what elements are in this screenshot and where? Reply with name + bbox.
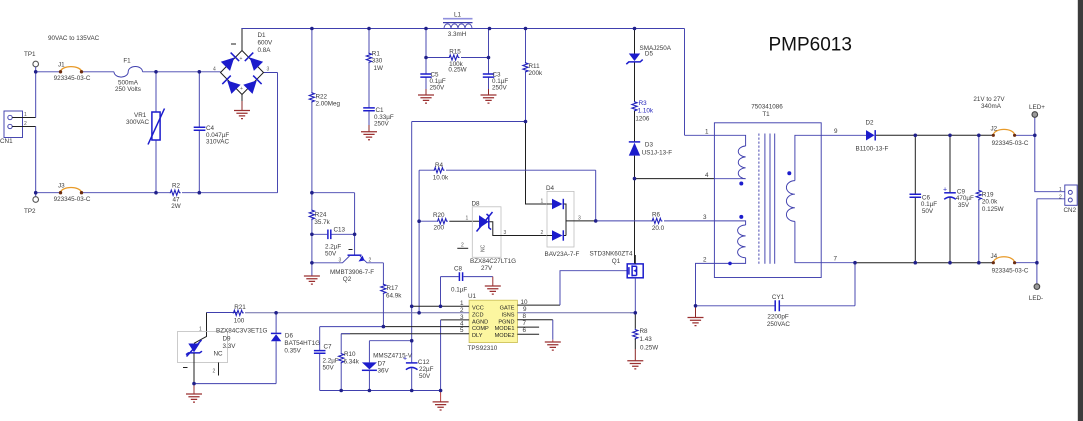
svg-text:3: 3 bbox=[504, 230, 507, 236]
svg-text:NC: NC bbox=[214, 351, 224, 358]
svg-text:TP2: TP2 bbox=[24, 208, 36, 215]
svg-text:250 Volts: 250 Volts bbox=[115, 86, 141, 93]
svg-text:20.0: 20.0 bbox=[652, 225, 665, 232]
svg-text:250V: 250V bbox=[374, 121, 390, 128]
svg-text:300VAC: 300VAC bbox=[126, 119, 149, 126]
svg-text:R20: R20 bbox=[433, 212, 445, 219]
svg-text:VCC: VCC bbox=[472, 305, 484, 311]
svg-text:VR1: VR1 bbox=[134, 112, 147, 119]
svg-text:C7: C7 bbox=[324, 344, 333, 351]
svg-text:2: 2 bbox=[461, 243, 464, 249]
svg-text:B1100-13-F: B1100-13-F bbox=[856, 146, 889, 153]
svg-text:R11: R11 bbox=[529, 63, 541, 70]
svg-text:CN2: CN2 bbox=[1064, 207, 1077, 214]
svg-text:J3: J3 bbox=[58, 182, 65, 189]
svg-text:D4: D4 bbox=[546, 185, 555, 192]
svg-text:35.7k: 35.7k bbox=[314, 219, 330, 226]
svg-text:R1: R1 bbox=[372, 51, 381, 58]
svg-text:2: 2 bbox=[213, 369, 216, 375]
svg-text:250V: 250V bbox=[492, 85, 508, 92]
svg-text:GATE: GATE bbox=[500, 305, 515, 311]
svg-text:ISNS: ISNS bbox=[501, 312, 514, 318]
svg-text:1: 1 bbox=[705, 129, 709, 136]
svg-text:BAT54HT1G: BAT54HT1G bbox=[284, 340, 320, 347]
svg-text:+: + bbox=[240, 86, 243, 92]
svg-text:D1: D1 bbox=[258, 32, 267, 39]
svg-text:2.00Meg: 2.00Meg bbox=[316, 101, 341, 108]
svg-text:310VAC: 310VAC bbox=[206, 139, 229, 146]
svg-text:250VAC: 250VAC bbox=[767, 321, 790, 328]
svg-text:D3: D3 bbox=[645, 142, 654, 149]
svg-text:MODE2: MODE2 bbox=[495, 333, 515, 339]
svg-text:5: 5 bbox=[460, 327, 464, 334]
svg-text:J2: J2 bbox=[991, 126, 998, 133]
svg-text:923345-03-C: 923345-03-C bbox=[992, 268, 1029, 275]
svg-text:330: 330 bbox=[372, 58, 383, 65]
svg-text:J1: J1 bbox=[58, 62, 65, 69]
svg-text:4: 4 bbox=[213, 67, 216, 73]
svg-text:0.25W: 0.25W bbox=[640, 345, 658, 352]
svg-text:0.35V: 0.35V bbox=[284, 348, 301, 355]
svg-text:F1: F1 bbox=[123, 58, 131, 65]
svg-text:50V: 50V bbox=[325, 251, 337, 258]
svg-text:BZX84C3V3ET1G: BZX84C3V3ET1G bbox=[216, 328, 268, 335]
svg-text:LED-: LED- bbox=[1029, 295, 1043, 302]
svg-text:1W: 1W bbox=[374, 65, 384, 72]
svg-text:Q1: Q1 bbox=[612, 258, 621, 265]
svg-text:+: + bbox=[403, 356, 407, 363]
svg-text:1206: 1206 bbox=[635, 116, 650, 123]
svg-text:6.34k: 6.34k bbox=[344, 359, 360, 366]
svg-text:D8: D8 bbox=[472, 201, 481, 208]
svg-text:LED+: LED+ bbox=[1029, 104, 1045, 111]
svg-text:27V: 27V bbox=[481, 265, 493, 272]
svg-text:D5: D5 bbox=[645, 51, 654, 58]
svg-text:AGND: AGND bbox=[472, 319, 488, 325]
svg-text:R2: R2 bbox=[172, 183, 181, 190]
svg-text:R22: R22 bbox=[316, 94, 328, 101]
svg-text:0.1µF: 0.1µF bbox=[451, 287, 467, 294]
svg-text:100: 100 bbox=[234, 318, 245, 325]
svg-text:2W: 2W bbox=[171, 203, 181, 210]
svg-text:50V: 50V bbox=[922, 208, 934, 215]
svg-text:3: 3 bbox=[578, 216, 581, 222]
svg-text:3: 3 bbox=[267, 67, 270, 73]
svg-text:4: 4 bbox=[705, 172, 709, 179]
svg-text:3.3mH: 3.3mH bbox=[448, 31, 467, 38]
svg-text:R10: R10 bbox=[344, 351, 356, 358]
svg-text:1.10k: 1.10k bbox=[638, 108, 654, 115]
svg-text:ZCD: ZCD bbox=[472, 312, 484, 318]
svg-text:C1: C1 bbox=[376, 107, 385, 114]
svg-text:COMP: COMP bbox=[472, 326, 489, 332]
svg-text:D2: D2 bbox=[866, 120, 875, 127]
svg-text:1: 1 bbox=[24, 112, 27, 118]
svg-text:250V: 250V bbox=[430, 85, 446, 92]
svg-text:C4: C4 bbox=[206, 125, 215, 132]
svg-text:TP1: TP1 bbox=[24, 51, 36, 58]
svg-text:2200pF: 2200pF bbox=[767, 314, 789, 321]
svg-text:923345-03-C: 923345-03-C bbox=[992, 140, 1029, 147]
svg-text:7: 7 bbox=[834, 256, 838, 263]
svg-text:9: 9 bbox=[834, 128, 838, 135]
svg-text:PGND: PGND bbox=[498, 319, 514, 325]
svg-text:2: 2 bbox=[24, 121, 27, 127]
svg-text:0.1µF: 0.1µF bbox=[921, 201, 937, 208]
svg-text:D7: D7 bbox=[378, 361, 387, 368]
svg-text:20.0k: 20.0k bbox=[982, 199, 998, 206]
svg-text:2: 2 bbox=[369, 258, 372, 264]
svg-text:923345-03-C: 923345-03-C bbox=[54, 75, 91, 82]
svg-text:64.9k: 64.9k bbox=[386, 293, 402, 300]
svg-text:R17: R17 bbox=[387, 285, 399, 292]
svg-text:0.125W: 0.125W bbox=[982, 206, 1004, 213]
svg-text:2: 2 bbox=[541, 230, 544, 236]
svg-text:U1: U1 bbox=[468, 293, 477, 300]
svg-text:STD3NK60ZT4: STD3NK60ZT4 bbox=[589, 251, 633, 258]
svg-text:R4: R4 bbox=[435, 162, 444, 169]
svg-text:50V: 50V bbox=[419, 373, 431, 380]
svg-text:C13: C13 bbox=[334, 227, 346, 234]
svg-text:0.8A: 0.8A bbox=[258, 47, 272, 54]
svg-text:10.0k: 10.0k bbox=[433, 175, 449, 182]
svg-text:R6: R6 bbox=[652, 212, 661, 219]
svg-text:2: 2 bbox=[1059, 194, 1062, 200]
svg-text:MODE1: MODE1 bbox=[495, 326, 515, 332]
svg-text:470µF: 470µF bbox=[956, 195, 974, 202]
svg-text:3.3V: 3.3V bbox=[223, 343, 237, 350]
svg-text:923345-03-C: 923345-03-C bbox=[54, 196, 91, 203]
svg-text:C12: C12 bbox=[418, 359, 430, 366]
svg-text:6: 6 bbox=[523, 327, 527, 334]
svg-text:CY1: CY1 bbox=[772, 294, 785, 301]
svg-text:1: 1 bbox=[541, 199, 544, 205]
svg-text:600V: 600V bbox=[258, 40, 274, 47]
svg-text:50V: 50V bbox=[323, 365, 335, 372]
svg-text:200k: 200k bbox=[529, 70, 544, 77]
svg-text:90VAC to 135VAC: 90VAC to 135VAC bbox=[48, 35, 100, 42]
svg-text:D9: D9 bbox=[223, 336, 232, 343]
svg-text:+: + bbox=[240, 56, 243, 62]
svg-text:BAV23A-7-F: BAV23A-7-F bbox=[545, 251, 580, 258]
svg-text:US1J-13-F: US1J-13-F bbox=[642, 150, 673, 157]
svg-text:2.2µF: 2.2µF bbox=[323, 358, 339, 365]
svg-text:R3: R3 bbox=[639, 100, 648, 107]
svg-text:1: 1 bbox=[466, 216, 469, 222]
svg-text:J4: J4 bbox=[991, 253, 998, 260]
svg-text:R8: R8 bbox=[640, 328, 649, 335]
svg-text:340mA: 340mA bbox=[981, 103, 1002, 110]
svg-text:3: 3 bbox=[703, 214, 707, 221]
svg-text:CN1: CN1 bbox=[0, 138, 13, 145]
svg-text:1: 1 bbox=[1059, 187, 1062, 193]
svg-text:D6: D6 bbox=[285, 333, 294, 340]
svg-text:PMP6013: PMP6013 bbox=[769, 35, 852, 56]
svg-text:1: 1 bbox=[199, 327, 202, 333]
svg-text:R21: R21 bbox=[234, 304, 246, 311]
svg-text:R19: R19 bbox=[982, 192, 994, 199]
svg-text:7: 7 bbox=[523, 320, 527, 327]
svg-text:0.25W: 0.25W bbox=[448, 67, 466, 74]
svg-text:DLY: DLY bbox=[472, 333, 483, 339]
svg-text:NC: NC bbox=[481, 244, 487, 252]
svg-text:+: + bbox=[943, 187, 947, 194]
svg-text:C8: C8 bbox=[454, 266, 463, 273]
svg-text:200: 200 bbox=[434, 225, 445, 232]
svg-text:3: 3 bbox=[339, 258, 342, 264]
svg-text:9: 9 bbox=[523, 306, 527, 313]
svg-text:35V: 35V bbox=[958, 202, 970, 209]
svg-text:BZX84C27LT1G: BZX84C27LT1G bbox=[470, 258, 516, 265]
svg-text:22µF: 22µF bbox=[419, 366, 434, 373]
svg-text:8: 8 bbox=[523, 313, 527, 320]
svg-text:Q2: Q2 bbox=[343, 276, 352, 283]
svg-text:MMBT3906-7-F: MMBT3906-7-F bbox=[330, 269, 374, 276]
svg-text:TPS92310: TPS92310 bbox=[468, 345, 498, 352]
svg-text:L1: L1 bbox=[454, 12, 462, 19]
svg-text:R24: R24 bbox=[315, 212, 327, 219]
svg-text:21V to 27V: 21V to 27V bbox=[973, 96, 1005, 103]
svg-text:2: 2 bbox=[703, 257, 707, 264]
svg-text:T1: T1 bbox=[762, 111, 770, 118]
svg-text:1.43: 1.43 bbox=[640, 336, 653, 343]
svg-text:750341086: 750341086 bbox=[751, 104, 783, 111]
svg-text:R15: R15 bbox=[449, 49, 461, 56]
svg-text:2.2µF: 2.2µF bbox=[325, 244, 341, 251]
svg-text:36V: 36V bbox=[378, 368, 390, 375]
